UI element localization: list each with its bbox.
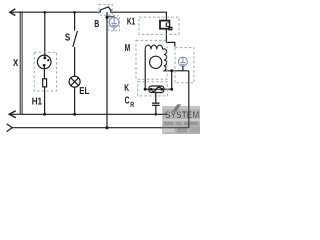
terminal strip X (double vertical line)	[19, 11, 21, 114]
wire motor bottom to right riser	[164, 70, 189, 72]
wire EL to N bus	[74, 87, 76, 114]
arrow mains N (points left)	[9, 111, 16, 118]
svg-text:H1: H1	[32, 96, 43, 107]
resistor in H1	[43, 79, 47, 87]
overload protector K body	[149, 86, 164, 93]
wire right riser visible through watermark	[188, 106, 190, 128]
start relay block K1 (top right)	[160, 21, 172, 30]
wire S to lamp EL	[74, 47, 76, 76]
wire protector right riser	[171, 71, 173, 89]
svg-text:R: R	[130, 100, 134, 109]
wire S branch upper	[74, 12, 76, 30]
junction dot protector left	[144, 88, 147, 91]
wire capacitor bottom to N bus	[155, 106, 157, 114]
junction dot H1 top	[43, 11, 46, 14]
junction dot S branch top	[73, 11, 76, 14]
wire earth stub	[182, 66, 184, 71]
motor M top winding	[145, 45, 162, 49]
motor M right winding (vertical)	[163, 49, 167, 71]
wire capacitor top	[155, 93, 157, 103]
thermostat B contact posts	[99, 10, 101, 13]
neon lamp H1 circle	[37, 55, 51, 69]
relay coil K1 circle	[109, 15, 119, 31]
junction dot motor bottom wire	[170, 69, 173, 72]
svg-text:M: M	[125, 43, 131, 54]
watermark 4SYSTEM	[162, 104, 200, 134]
junction dot mid bottom	[105, 126, 108, 129]
junction dot protector right	[170, 88, 173, 91]
svg-text:S: S	[65, 33, 71, 44]
enclosure K dashed	[138, 82, 168, 96]
wire N bus end visible through watermark	[162, 113, 167, 115]
wire protector row	[145, 88, 172, 90]
arrow PE (chevron)	[7, 124, 13, 132]
svg-text:K1: K1	[127, 16, 136, 27]
enclosure K1 coil dashed	[109, 16, 120, 31]
junction dot mid top	[105, 16, 108, 19]
capacitor CR plates	[152, 103, 160, 104]
svg-text:B: B	[94, 19, 99, 30]
svg-text:X: X	[13, 58, 18, 69]
H1 electrode dots	[43, 56, 50, 66]
earth circle (protective earth)	[178, 57, 187, 66]
wire top L: segment after B to top-right corner	[111, 12, 167, 21]
wire N bus	[9, 113, 166, 115]
wire PE bus visible through watermark	[160, 127, 189, 129]
junction dot EL bottom	[73, 113, 76, 116]
enclosure earth dashed	[175, 48, 194, 83]
arrow mains top (points left)	[10, 9, 16, 16]
relay coil K1 tap wire	[107, 16, 114, 19]
wire relay exit down and right	[166, 29, 174, 47]
enclosure relay dashed (top right)	[139, 17, 179, 34]
lamp EL	[69, 76, 80, 87]
enclosure B dashed	[99, 4, 112, 15]
enclosure H1 dashed	[34, 52, 56, 91]
wire mid vertical (top to lower bus)	[106, 12, 108, 128]
wire right riser	[188, 71, 190, 128]
wire top L: left segment to thermostat B	[10, 11, 100, 13]
wire H1 lamp to resistor	[43, 65, 45, 79]
svg-text:EL: EL	[79, 86, 89, 97]
svg-text:K: K	[124, 83, 129, 94]
wire H1 resistor to N bus	[44, 87, 46, 114]
wire PE bottom bus	[12, 127, 189, 129]
svg-text:C: C	[125, 96, 130, 107]
wire H1 branch from top bus	[44, 12, 46, 57]
thermostat B blade	[100, 7, 111, 10]
junction dot H1 bottom	[43, 113, 46, 116]
motor rotor circle	[150, 56, 162, 68]
switch S blade	[73, 31, 78, 47]
enclosure M dashed	[136, 40, 167, 79]
motor M left wire down to protector	[144, 49, 146, 89]
junction dot capacitor bottom	[155, 113, 158, 116]
